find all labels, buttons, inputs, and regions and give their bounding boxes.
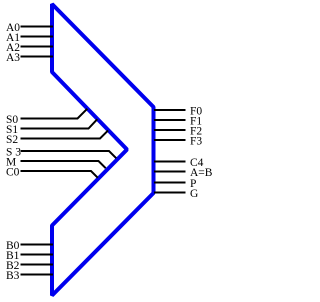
svg-text:B3: B3	[6, 270, 20, 282]
wire A3	[21, 56, 54, 58]
wire P	[154, 182, 186, 184]
wire C0	[21, 171, 98, 178]
wire C4	[154, 161, 186, 163]
svg-text:S2: S2	[6, 134, 18, 146]
wire B2	[21, 264, 54, 266]
svg-text:A3: A3	[6, 52, 20, 64]
wire F0	[154, 109, 186, 111]
wire S1	[21, 119, 98, 128]
wire A1	[21, 36, 54, 38]
wire S0	[21, 109, 88, 119]
wire B3	[21, 274, 54, 276]
wire S3	[21, 151, 117, 158]
wire A2	[21, 46, 54, 48]
wire B0	[21, 244, 54, 246]
svg-text:C0: C0	[6, 167, 20, 179]
wire B1	[21, 254, 54, 256]
wire A=B	[154, 171, 186, 173]
ALU body U1 (chevron outline)	[52, 4, 154, 296]
wire M	[21, 161, 106, 168]
wire F2	[154, 129, 186, 131]
svg-text:G: G	[190, 188, 198, 200]
svg-text:F3: F3	[190, 136, 202, 148]
wire F3	[154, 139, 186, 141]
wire F1	[154, 119, 186, 121]
wire G	[154, 192, 186, 194]
wire S2	[21, 130, 109, 138]
wire A0	[21, 26, 54, 28]
